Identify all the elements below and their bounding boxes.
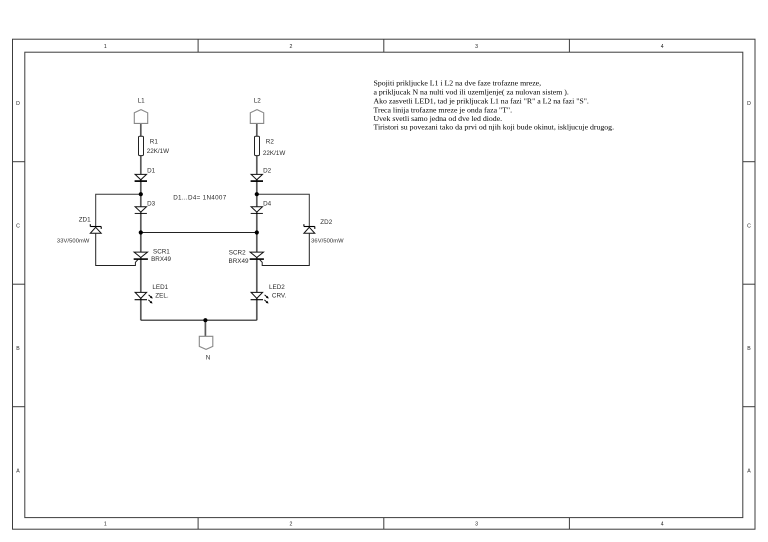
terminal L2 xyxy=(250,97,263,123)
diode D1 xyxy=(135,168,156,182)
wire rail node B to node B2 xyxy=(141,232,257,234)
svg-text:33V/500mW: 33V/500mW xyxy=(57,239,90,245)
svg-text:R2: R2 xyxy=(266,138,275,145)
svg-text:3: 3 xyxy=(475,44,478,50)
diode D2 xyxy=(251,168,272,182)
svg-text:BRX49: BRX49 xyxy=(151,256,171,263)
svg-text:BRX49: BRX49 xyxy=(229,258,249,265)
terminal N xyxy=(199,336,213,361)
wire L2 branch vertical xyxy=(256,123,258,320)
svg-text:3: 3 xyxy=(475,522,478,528)
svg-text:ZD2: ZD2 xyxy=(320,219,332,226)
svg-text:ZD1: ZD1 xyxy=(79,216,91,223)
svg-text:22K/1W: 22K/1W xyxy=(147,148,169,155)
diode D4 xyxy=(251,200,272,213)
svg-text:2: 2 xyxy=(289,522,292,528)
svg-text:D3: D3 xyxy=(147,200,156,207)
svg-text:1: 1 xyxy=(104,522,107,528)
wire ZD2 bottom to SCR2 gate xyxy=(260,234,310,266)
svg-text:D1...D4= 1N4007: D1...D4= 1N4007 xyxy=(173,195,227,202)
thyristor SCR2 xyxy=(229,250,264,265)
svg-text:LED1: LED1 xyxy=(152,284,168,291)
svg-text:D1: D1 xyxy=(147,168,156,175)
terminal L1 xyxy=(134,97,147,123)
zener diode ZD2 xyxy=(304,219,344,245)
wire ZD1 bottom to SCR1 gate xyxy=(96,234,138,266)
svg-text:LED2: LED2 xyxy=(269,284,285,291)
wire node A to ZD1 top xyxy=(96,194,141,226)
node B2 junction xyxy=(255,230,259,234)
svg-text:4: 4 xyxy=(661,522,664,528)
svg-text:36V/500mW: 36V/500mW xyxy=(311,239,344,245)
zener diode ZD1 xyxy=(57,216,101,244)
svg-text:D4: D4 xyxy=(263,200,272,207)
LED LED2 xyxy=(251,284,287,303)
svg-text:D: D xyxy=(747,101,751,107)
thyristor SCR1 xyxy=(134,248,172,263)
svg-text:SCR1: SCR1 xyxy=(153,248,170,255)
svg-text:CRV.: CRV. xyxy=(272,292,287,299)
svg-text:4: 4 xyxy=(661,44,664,50)
svg-text:2: 2 xyxy=(289,44,292,50)
svg-text:L2: L2 xyxy=(254,97,262,104)
svg-text:ZEL.: ZEL. xyxy=(155,292,169,299)
svg-text:B: B xyxy=(16,346,20,352)
wire bottom rail xyxy=(141,319,257,321)
svg-text:Ako zasvetli LED1, tad je prik: Ako zasvetli LED1, tad je prikljucak L1 … xyxy=(374,97,589,106)
wire node A2 to ZD2 top xyxy=(257,194,310,226)
LED LED1 xyxy=(135,284,169,303)
node C junction xyxy=(203,318,207,322)
svg-text:R1: R1 xyxy=(150,138,159,145)
node A2 junction xyxy=(255,192,259,196)
svg-text:N: N xyxy=(206,354,211,361)
svg-text:Spojiti prikljucke L1 i L2 na: Spojiti prikljucke L1 i L2 na dve faze t… xyxy=(374,79,542,88)
note description text xyxy=(374,79,615,132)
resistor R2 xyxy=(255,136,286,157)
wire node C to terminal N xyxy=(204,320,206,336)
svg-text:Tiristori su povezani tako da: Tiristori su povezani tako da prvi od nj… xyxy=(374,123,615,132)
svg-text:a prikljucak N na nulti vod il: a prikljucak N na nulti vod ili uzemljen… xyxy=(374,88,569,97)
svg-text:L1: L1 xyxy=(138,97,146,104)
wire L1 branch vertical xyxy=(140,123,142,320)
svg-text:A: A xyxy=(747,469,751,475)
svg-text:B: B xyxy=(747,346,751,352)
svg-text:C: C xyxy=(16,224,20,230)
node A junction xyxy=(139,192,143,196)
svg-text:A: A xyxy=(16,469,20,475)
svg-text:SCR2: SCR2 xyxy=(229,250,246,257)
svg-text:22K/1W: 22K/1W xyxy=(263,150,285,157)
resistor R1 xyxy=(139,136,170,155)
svg-text:1: 1 xyxy=(104,44,107,50)
svg-text:C: C xyxy=(747,224,751,230)
svg-text:D: D xyxy=(16,101,20,107)
svg-text:D2: D2 xyxy=(263,168,272,175)
node B junction xyxy=(139,230,143,234)
diode D3 xyxy=(135,200,156,213)
